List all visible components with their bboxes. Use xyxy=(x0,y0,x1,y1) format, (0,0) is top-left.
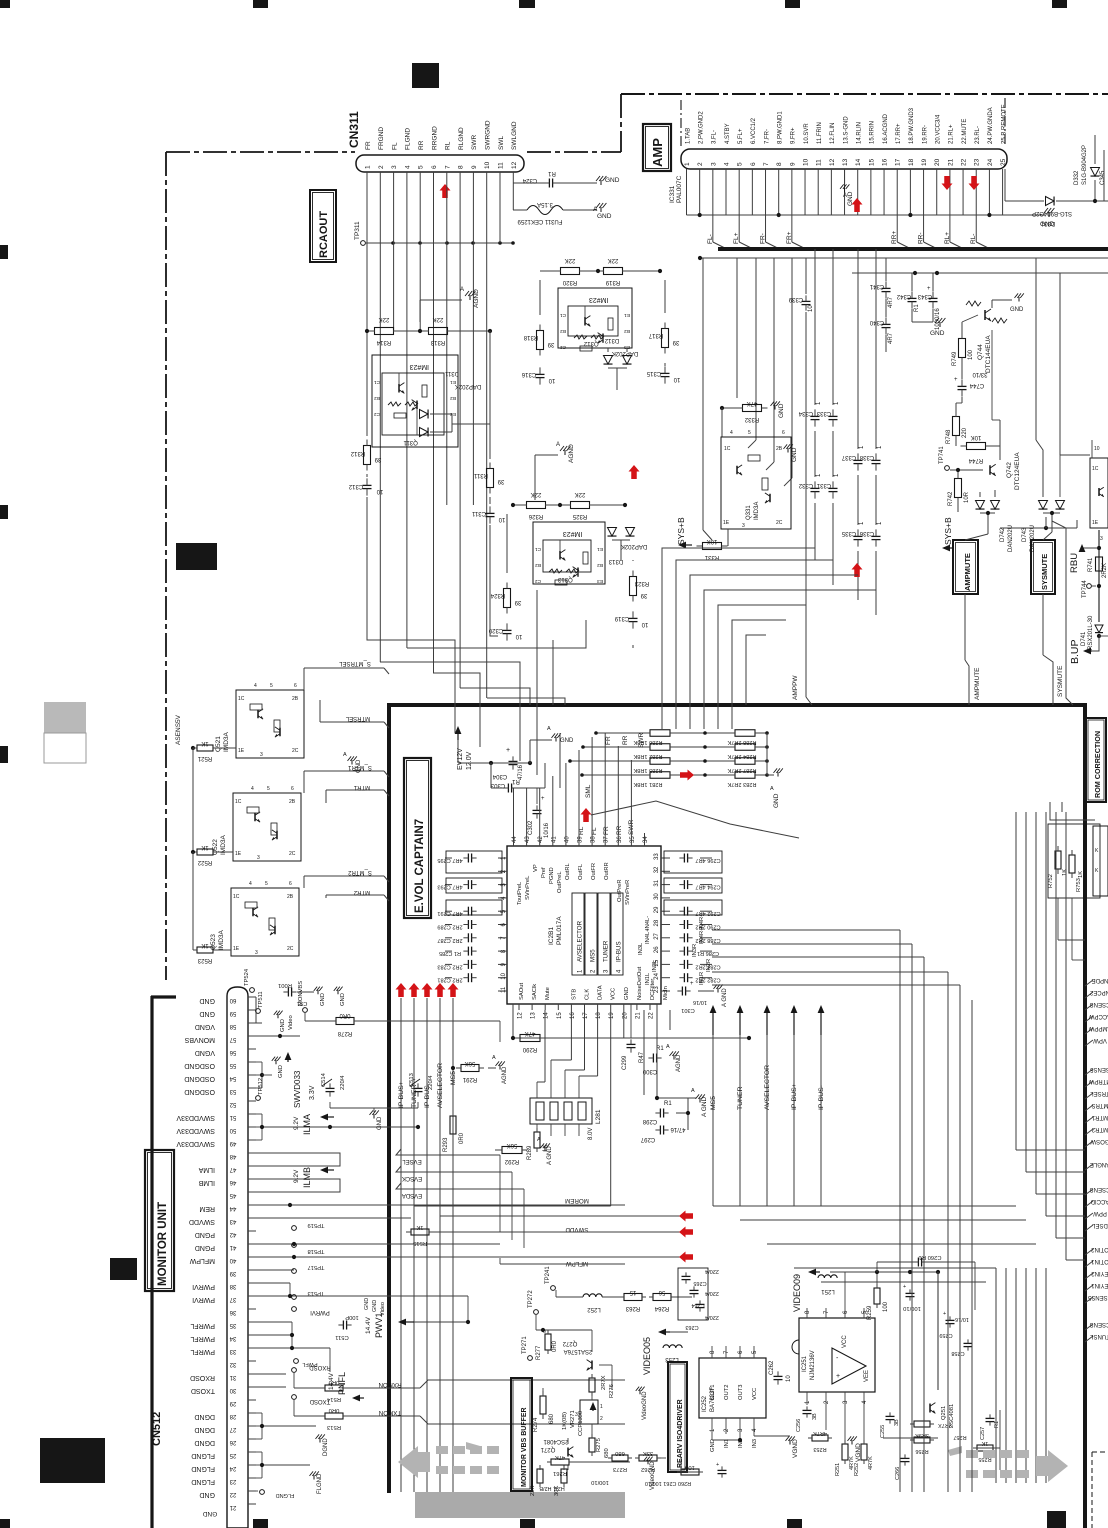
transistor Q272 2SA1576A xyxy=(591,1361,593,1370)
svg-text:24: 24 xyxy=(987,158,994,166)
svg-text:R323: R323 xyxy=(634,580,649,586)
resistor R276 2R7K xyxy=(589,1378,595,1392)
svg-text:4: 4 xyxy=(249,881,252,887)
resistor R264 56 xyxy=(653,1294,671,1301)
svg-text:34: 34 xyxy=(229,1335,236,1341)
transistor block Q521 IMD3A xyxy=(236,690,304,758)
svg-text:TP511: TP511 xyxy=(258,991,264,1008)
svg-text:D312: D312 xyxy=(604,337,619,343)
black tab x176 y543 xyxy=(176,543,217,570)
svg-text:GND: GND xyxy=(773,793,780,808)
svg-text:L252: L252 xyxy=(587,1306,601,1312)
svg-text:DAN202U: DAN202U xyxy=(1008,525,1014,552)
wire PWRVI pins xyxy=(256,1282,290,1284)
IC2B1 right pin 25 xyxy=(661,963,670,965)
svg-text:SWR: SWR xyxy=(471,135,478,150)
svg-text:28: 28 xyxy=(654,919,660,926)
svg-text:C1: C1 xyxy=(374,379,380,385)
svg-text:R275: R275 xyxy=(596,1438,602,1452)
svg-text:42: 42 xyxy=(538,836,544,843)
svg-text:OUT2: OUT2 xyxy=(724,1385,730,1400)
svg-text:20: 20 xyxy=(934,158,941,166)
dash-dot border RCAOUT-AMP joining xyxy=(527,151,621,153)
svg-text:9: 9 xyxy=(471,165,478,169)
svg-text:1: 1 xyxy=(365,165,372,169)
wire AMPMUTE down xyxy=(964,594,966,660)
svg-text:ILMA: ILMA xyxy=(302,1114,312,1135)
svg-text:DAP202K: DAP202K xyxy=(455,383,481,389)
fuse FU311 CEK1259 3.15A xyxy=(513,209,527,211)
IC2B1 right pin 24 xyxy=(661,977,670,979)
svg-text:44: 44 xyxy=(512,836,518,843)
svg-text:5: 5 xyxy=(737,162,744,166)
red arrow below caps xyxy=(852,563,863,577)
capacitor C260 R1 xyxy=(917,1258,919,1267)
svg-text:D742: D742 xyxy=(1000,527,1006,542)
svg-text:CLK: CLK xyxy=(585,989,591,1000)
svg-text:680: 680 xyxy=(615,1450,625,1456)
svg-text:R749: R749 xyxy=(952,351,958,366)
svg-text:DGND: DGND xyxy=(194,1439,215,1446)
svg-text:PPW: PPW xyxy=(1093,1210,1107,1216)
svg-text:R289: R289 xyxy=(527,1145,533,1160)
svg-text:GND: GND xyxy=(356,759,362,773)
svg-text:DAP202K: DAP202K xyxy=(621,543,647,549)
svg-text:6: 6 xyxy=(294,683,297,689)
resistor R261 47K xyxy=(551,1459,569,1465)
svg-text:17: 17 xyxy=(895,158,902,166)
svg-text:31: 31 xyxy=(229,1374,236,1380)
svg-text:IM#23: IM#23 xyxy=(409,363,429,370)
svg-text:21: 21 xyxy=(947,158,954,166)
svg-text:47/16: 47/16 xyxy=(670,1126,686,1132)
svg-text:NoiseDetOut: NoiseDetOut xyxy=(637,966,643,1000)
svg-text:FR: FR xyxy=(365,141,372,150)
resistor R753 1K xyxy=(1069,855,1075,873)
svg-text:2SC4081: 2SC4081 xyxy=(543,1438,569,1444)
svg-text:+: + xyxy=(541,796,545,802)
svg-text:C299: C299 xyxy=(622,1055,628,1070)
ground A GND at C301 xyxy=(698,990,714,992)
svg-text:TP241: TP241 xyxy=(545,1266,551,1284)
resistor grid left column 1R8K xyxy=(650,730,670,737)
svg-text:R001: R001 xyxy=(278,982,292,988)
svg-text:4R7K: 4R7K xyxy=(813,1430,827,1436)
svg-text:+: + xyxy=(927,286,931,292)
svg-text:VGND: VGND xyxy=(195,1049,215,1056)
edge stub GOSW xyxy=(1085,1141,1093,1147)
svg-text:21: 21 xyxy=(635,1012,641,1019)
svg-text:AMPPW: AMPPW xyxy=(792,675,799,700)
svg-text:R281 1R8K: R281 1R8K xyxy=(633,781,662,787)
gray dashed arrow right xyxy=(948,1446,1068,1482)
test point TP518 xyxy=(292,1243,297,1248)
svg-text:GND: GND xyxy=(791,447,798,462)
svg-text:16.ACGND: 16.ACGND xyxy=(883,113,889,144)
svg-text:E.VOL CAPTAIN7: E.VOL CAPTAIN7 xyxy=(414,819,426,913)
edge stub MTR1 xyxy=(1085,1117,1093,1123)
svg-text:SWL: SWL xyxy=(498,136,505,150)
svg-text:GND: GND xyxy=(930,330,945,337)
svg-text:2SA1576A: 2SA1576A xyxy=(564,1348,593,1354)
registration mark bottom right xyxy=(1047,1511,1066,1528)
svg-text:IP-BUS+: IP-BUS+ xyxy=(791,1083,798,1110)
wire CN311 pin fanout xyxy=(366,186,368,420)
svg-text:56K: 56K xyxy=(507,1142,518,1148)
svg-text:30: 30 xyxy=(654,893,660,900)
wire/label S_MTRSEL xyxy=(303,668,305,690)
capacitor C257 R1 xyxy=(986,1417,995,1419)
resistor R274 680 xyxy=(540,1396,546,1414)
svg-text:H2/1 H2/B: H2/1 H2/B xyxy=(539,1485,565,1491)
svg-text:4R7: 4R7 xyxy=(888,332,894,344)
dashed box bottom right corner xyxy=(1092,1451,1108,1453)
ground A GND mid xyxy=(699,1098,701,1103)
svg-text:R283 2R7K: R283 2R7K xyxy=(727,781,756,787)
svg-text:1K: 1K xyxy=(1078,871,1084,878)
svg-text:1C: 1C xyxy=(1092,466,1099,472)
test point TP519 xyxy=(292,1226,297,1231)
svg-text:Q311: Q311 xyxy=(403,439,418,445)
svg-text:+: + xyxy=(506,747,510,754)
wire AMPPW down xyxy=(805,460,807,697)
svg-text:TUNSL: TUNSL xyxy=(1090,1333,1108,1339)
capacitor C301 10/16 xyxy=(681,987,683,996)
svg-text:29: 29 xyxy=(654,906,660,913)
svg-text:NPCE2: NPCE2 xyxy=(1089,989,1108,995)
connector CN512 body xyxy=(227,987,248,1528)
ground at FU311 xyxy=(600,207,602,212)
red arrow mid-left xyxy=(629,465,640,479)
edge stub MTRS xyxy=(1085,1105,1093,1111)
svg-text:B.UP: B.UP xyxy=(1069,639,1081,664)
svg-text:2B: 2B xyxy=(287,894,294,900)
label box SYSMUTE xyxy=(1031,540,1055,594)
red arrow bus left 2 xyxy=(679,1227,693,1238)
svg-text:D311: D311 xyxy=(444,370,459,376)
svg-text:220/4: 220/4 xyxy=(705,1290,719,1296)
resistor R521 1K xyxy=(197,745,213,751)
resistor R275 680 xyxy=(589,1438,595,1452)
resistor R325 22K xyxy=(571,502,590,509)
transistor Q744 DTC144EUA xyxy=(984,310,986,320)
svg-text:DTC124EUA: DTC124EUA xyxy=(1014,452,1021,490)
wire bus to right bundle xyxy=(713,1205,1016,1207)
block Q311 IM#23 xyxy=(372,355,458,447)
svg-text:VPW: VPW xyxy=(1093,1037,1107,1043)
wire IC top pin risers xyxy=(513,788,515,833)
svg-text:SYS+B: SYS+B xyxy=(943,517,953,545)
svg-text:FLGND: FLGND xyxy=(317,1473,323,1494)
IC2B1 right pin 31 xyxy=(661,884,670,886)
svg-text:33K: 33K xyxy=(643,1450,653,1456)
svg-text:19: 19 xyxy=(609,1012,615,1019)
edge stub VPW xyxy=(1085,1040,1093,1046)
wire IC bottom pin drops xyxy=(570,1010,572,1060)
svg-text:22K: 22K xyxy=(530,1486,536,1496)
label box E.VOL CAPTAIN7 xyxy=(404,758,431,918)
ground GNDGND xyxy=(317,990,319,994)
svg-text:R256: R256 xyxy=(915,1448,928,1454)
IC2B1 right pin 33 xyxy=(661,857,670,859)
svg-text:220/4: 220/4 xyxy=(428,1075,434,1090)
svg-text:IN3L: IN3L xyxy=(638,942,644,955)
resistor R278 0R0 xyxy=(336,1018,354,1025)
svg-text:FL-: FL- xyxy=(707,234,714,244)
svg-text:0R0: 0R0 xyxy=(552,1340,558,1352)
svg-text:22K: 22K xyxy=(433,316,444,322)
edge stub SENS5 xyxy=(1085,1069,1093,1075)
svg-text:RR: RR xyxy=(418,140,425,150)
svg-text:3.3V: 3.3V xyxy=(309,1085,316,1100)
ground A GND at R292 xyxy=(544,1147,546,1152)
svg-text:+: + xyxy=(836,1373,840,1380)
op-amp IC IC2B1 PML017A body xyxy=(507,846,661,1004)
capacitor C335 1 xyxy=(854,535,863,537)
svg-text:TP519: TP519 xyxy=(307,1222,324,1228)
svg-text:AGND: AGND xyxy=(676,1054,682,1072)
svg-text:R325: R325 xyxy=(572,513,587,519)
edge stub EYIN2 xyxy=(1085,1273,1093,1279)
svg-text:58: 58 xyxy=(229,1023,236,1029)
svg-text:C302: C302 xyxy=(528,820,534,835)
transistor Q251 2SC4081 xyxy=(929,1404,931,1413)
svg-text:3: 3 xyxy=(257,855,260,861)
resistor R523 1K xyxy=(197,947,213,953)
capacitor C319 10 xyxy=(629,617,638,619)
svg-text:5: 5 xyxy=(418,165,425,169)
svg-text:R744: R744 xyxy=(968,457,983,463)
svg-text:C311: C311 xyxy=(471,510,486,516)
svg-text:54: 54 xyxy=(229,1075,236,1081)
wire resistor grid rails xyxy=(596,732,650,734)
svg-text:25: 25 xyxy=(1000,158,1007,166)
svg-text:GND: GND xyxy=(372,1300,378,1312)
capacitor C514 220/4 xyxy=(326,1087,335,1089)
svg-text:40: 40 xyxy=(229,1257,236,1263)
ground S-GND pin13 xyxy=(844,169,846,186)
wire right bundle lower xyxy=(995,1268,997,1483)
svg-text:Q744: Q744 xyxy=(977,344,984,360)
capacitor C299/resistor R47 xyxy=(627,1043,636,1045)
svg-text:E1: E1 xyxy=(597,546,603,552)
wire DGND join xyxy=(256,1412,262,1414)
svg-text:IP-BUS+: IP-BUS+ xyxy=(398,1081,405,1108)
svg-text:RR: RR xyxy=(622,735,629,745)
svg-text:6: 6 xyxy=(431,165,438,169)
svg-text:220/4: 220/4 xyxy=(340,1075,346,1090)
resistor R290 47K xyxy=(520,1035,540,1042)
svg-text:12: 12 xyxy=(518,1012,524,1019)
edge stub OTIN1 xyxy=(1085,1261,1093,1267)
svg-text:R1: R1 xyxy=(548,170,556,176)
svg-text:A: A xyxy=(691,1088,695,1094)
thick wire speaker bus xyxy=(718,247,1108,251)
resistor R289 1K xyxy=(534,1132,540,1148)
svg-text:22K: 22K xyxy=(379,316,390,322)
svg-text:IMD3A: IMD3A xyxy=(223,731,230,752)
svg-text:FLGND: FLGND xyxy=(191,1478,215,1485)
svg-text:7: 7 xyxy=(444,165,451,169)
svg-text:MTRPW: MTRPW xyxy=(1088,1078,1108,1084)
resistor R331 10K xyxy=(703,543,722,550)
wire verticals crossing y705 from stair xyxy=(454,705,456,733)
svg-text:R326: R326 xyxy=(528,513,543,519)
svg-text:GND: GND xyxy=(710,1439,716,1452)
test point TP741 xyxy=(945,466,950,471)
svg-text:0R0: 0R0 xyxy=(329,1379,340,1385)
svg-text:VIDEO05: VIDEO05 xyxy=(642,1337,652,1375)
capacitor 100/10 xyxy=(906,1292,915,1294)
svg-text:R523: R523 xyxy=(197,957,212,963)
resistor R293 0R0 xyxy=(450,1116,456,1134)
gray footer bar xyxy=(415,1492,625,1518)
capacitor C337 1 xyxy=(854,459,863,461)
svg-text:IC2B1: IC2B1 xyxy=(548,927,555,945)
svg-text:53: 53 xyxy=(229,1088,236,1094)
svg-text:Q251: Q251 xyxy=(941,1406,947,1420)
svg-text:C333: C333 xyxy=(816,410,831,416)
svg-text:A: A xyxy=(593,206,598,213)
svg-text:PAL007C: PAL007C xyxy=(676,175,683,203)
svg-text:MicIn: MicIn xyxy=(663,986,669,1000)
svg-text:2: 2 xyxy=(600,1416,603,1422)
resistor R319 22K xyxy=(604,268,623,275)
dash-dot border AMP vertical xyxy=(620,94,622,152)
wire bottom bus lines xyxy=(414,1205,611,1207)
svg-text:NPDE: NPDE xyxy=(1092,977,1108,983)
svg-text:MTRSEL: MTRSEL xyxy=(345,715,370,721)
svg-text:C340: C340 xyxy=(869,319,884,325)
svg-text:C304: C304 xyxy=(492,773,507,779)
resistor R255 1K xyxy=(977,1445,993,1451)
svg-text:+: + xyxy=(943,1311,946,1317)
svg-text:1K: 1K xyxy=(201,740,208,746)
diode D331 S1G-B904G2P xyxy=(1046,197,1055,206)
svg-text:RSX201L-30: RSX201L-30 xyxy=(1088,615,1094,650)
svg-text:22K: 22K xyxy=(531,491,542,497)
svg-text:TP513: TP513 xyxy=(307,1290,324,1296)
resistor R263 15 xyxy=(624,1294,642,1301)
black tab bottom-left xyxy=(40,1438,105,1483)
svg-text:1: 1 xyxy=(600,1404,603,1410)
svg-text:R274: R274 xyxy=(533,1417,539,1432)
capacitor C744 33/10 xyxy=(958,385,967,387)
svg-text:Video: Video xyxy=(380,1302,386,1316)
svg-text:C297: C297 xyxy=(640,1136,655,1142)
resistor R253 4R7K xyxy=(812,1435,828,1441)
registration mark top x786 xyxy=(785,0,800,8)
capacitor C332 1 xyxy=(811,487,820,489)
svg-text:100: 100 xyxy=(685,1464,695,1470)
svg-text:1K(0B): 1K(0B) xyxy=(562,1412,568,1430)
svg-text:1K: 1K xyxy=(1062,869,1068,876)
svg-text:45: 45 xyxy=(229,1192,236,1198)
svg-text:23: 23 xyxy=(974,158,981,166)
registration mark bottom x787 xyxy=(787,1519,802,1528)
capacitor C312 10 xyxy=(363,484,372,486)
wire R290 rail xyxy=(512,1004,514,1038)
svg-text:R264: R264 xyxy=(654,1305,669,1311)
svg-text:25.B.REMOTE: 25.B.REMOTE xyxy=(1001,104,1007,144)
ground at R332 xyxy=(774,405,776,410)
svg-text:56: 56 xyxy=(658,1289,665,1295)
test point TP241 xyxy=(551,1286,556,1291)
ground A GND resistor grid xyxy=(767,774,774,776)
svg-text:Q521: Q521 xyxy=(215,736,222,752)
svg-text:CSENS5: CSENS5 xyxy=(1087,1294,1108,1300)
wire roof diagonal xyxy=(591,801,799,838)
svg-text:R332: R332 xyxy=(744,416,759,422)
resistor R318 39 xyxy=(537,331,544,350)
svg-text:Pref: Pref xyxy=(541,867,547,878)
svg-text:4: 4 xyxy=(730,430,733,436)
svg-text:10K: 10K xyxy=(707,538,718,544)
svg-text:47K: 47K xyxy=(525,1030,536,1036)
wire speaker RR- xyxy=(923,215,925,242)
svg-text:B2: B2 xyxy=(374,395,380,401)
thick border monitor unit left xyxy=(150,996,153,1528)
svg-text:10: 10 xyxy=(673,376,680,382)
svg-text:11: 11 xyxy=(501,986,507,993)
svg-text:IN4R+: IN4R+ xyxy=(699,927,705,944)
svg-text:MONVBS: MONVBS xyxy=(298,981,304,1006)
wire TXOSD xyxy=(292,1395,297,1400)
svg-text:GND: GND xyxy=(280,1019,286,1032)
svg-text:39: 39 xyxy=(547,341,554,347)
svg-text:C258: C258 xyxy=(951,1350,964,1356)
svg-text:GOSW: GOSW xyxy=(1090,1138,1108,1144)
inductor L252 xyxy=(583,1294,602,1297)
red arrow resistor grid xyxy=(680,770,694,781)
svg-text:PWRVI: PWRVI xyxy=(192,1283,215,1290)
svg-text:5: 5 xyxy=(748,430,751,436)
ground at Q522 xyxy=(351,760,353,765)
wire SYSMUTE gray line xyxy=(1052,521,1073,705)
IC2B1 right pin 32 xyxy=(661,870,670,872)
svg-text:RRGND: RRGND xyxy=(431,126,438,150)
dash-dot border RCAOUT block top xyxy=(166,151,355,153)
registration mark left y245 xyxy=(0,245,8,259)
svg-text:PWRFL: PWRFL xyxy=(190,1335,215,1342)
svg-text:9.2V: 9.2V xyxy=(293,1169,300,1183)
svg-text:MONVBS: MONVBS xyxy=(184,1036,215,1043)
svg-text:FLGND: FLGND xyxy=(191,1465,215,1472)
resistor R515 1K xyxy=(411,1229,429,1235)
capacitor C304 47/16 xyxy=(509,760,518,762)
wire/label S_MTR1 xyxy=(303,771,305,793)
svg-text:PGND: PGND xyxy=(549,867,555,884)
op-amp triangle IC251 xyxy=(832,1348,866,1384)
svg-text:5: 5 xyxy=(270,683,273,689)
svg-text:48: 48 xyxy=(229,1153,236,1159)
ground VideoGND 1 xyxy=(639,1390,641,1394)
svg-text:SVinPreL: SVinPreL xyxy=(525,875,531,900)
capacitor C315 10 xyxy=(661,372,670,374)
svg-text:C312: C312 xyxy=(348,483,363,489)
svg-text:50: 50 xyxy=(229,1127,236,1133)
svg-text:R263: R263 xyxy=(625,1305,640,1311)
wire stair-step left xyxy=(407,620,586,648)
black tab top-center xyxy=(412,63,439,88)
svg-text:26: 26 xyxy=(229,1439,236,1445)
svg-text:PWRFL: PWRFL xyxy=(190,1322,215,1329)
svg-text:R311: R311 xyxy=(473,472,488,478)
wire speaker FR- xyxy=(765,215,767,242)
svg-text:R742: R742 xyxy=(948,491,954,506)
svg-text:FRGND: FRGND xyxy=(378,127,385,150)
svg-text:4R7: 4R7 xyxy=(888,296,894,308)
